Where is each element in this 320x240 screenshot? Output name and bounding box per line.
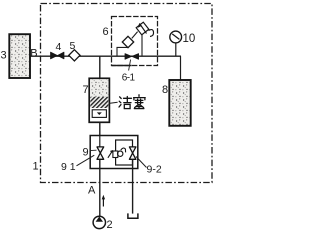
label 活塞 (piston) drawn strokes xyxy=(119,95,145,109)
svg-text:5: 5 xyxy=(70,40,76,52)
piston rod box xyxy=(92,110,106,118)
svg-text:A: A xyxy=(88,185,96,197)
wire L from pipe to filter diamond xyxy=(117,47,128,56)
pilot arrow xyxy=(108,151,113,158)
tank 3 xyxy=(9,34,30,78)
leader 9-1 xyxy=(77,155,95,166)
box 6 (dashed enclosure) xyxy=(112,17,158,66)
enclosure box 1 (chain line border) xyxy=(41,4,213,183)
wire right valve down to drain tank xyxy=(132,159,134,213)
svg-text:9 1: 9 1 xyxy=(61,161,76,173)
svg-text:B: B xyxy=(30,47,37,59)
valve 9-1 (vertical bowtie) xyxy=(97,147,104,159)
cylinder 7 body xyxy=(89,78,109,122)
wire pipe down to tank 8 xyxy=(180,56,182,80)
svg-text:8: 8 xyxy=(162,84,168,96)
wire into left valve xyxy=(99,136,101,148)
pressure gauge 10 xyxy=(170,31,182,43)
relief valve arrow xyxy=(140,24,147,34)
box 6 bottom edge solid segment xyxy=(112,65,132,67)
svg-text:9-2: 9-2 xyxy=(147,164,162,176)
relief valve (tilted square with arrow) xyxy=(136,22,149,35)
svg-text:6-1: 6-1 xyxy=(122,73,136,84)
filter diamond in box 6 xyxy=(122,36,133,47)
main pipe wire B-4-5-6 xyxy=(30,55,181,57)
pump triangle xyxy=(96,217,103,222)
svg-text:4: 4 xyxy=(56,41,62,53)
valve box 9 inner xyxy=(116,140,133,165)
pilot square xyxy=(113,151,118,158)
svg-text:2: 2 xyxy=(107,219,113,231)
svg-text:1: 1 xyxy=(33,161,39,173)
svg-text:9: 9 xyxy=(83,147,89,159)
rod mark xyxy=(97,112,102,115)
wire relief valve to pipe xyxy=(141,35,143,57)
svg-text:6: 6 xyxy=(103,26,109,38)
valve box 9 outer xyxy=(90,136,138,169)
leader 9-2 xyxy=(136,157,147,168)
tank 8 xyxy=(169,80,190,126)
wire gauge stem xyxy=(175,43,177,56)
wire left valve down to pump xyxy=(99,159,101,216)
wire diamond to relief valve 6 xyxy=(132,32,138,39)
pilot ring xyxy=(118,151,123,156)
leader to piston xyxy=(110,102,118,103)
valve 9-2 (vertical bowtie) xyxy=(129,147,136,159)
piston (hatched) xyxy=(90,97,108,108)
spring hook xyxy=(149,30,154,37)
valve 6-1 (bowtie on pipe) xyxy=(125,54,139,60)
drain tank symbol xyxy=(128,213,138,218)
cylinder 7 gas section (stippled) xyxy=(90,79,108,96)
gauge needle xyxy=(172,34,179,40)
flow arrow xyxy=(102,198,104,207)
wire cylinder to valve box xyxy=(99,122,101,135)
pilot hook xyxy=(121,148,126,152)
leader 6-1 xyxy=(129,60,131,71)
wire junction to cylinder 7 xyxy=(99,56,101,78)
svg-text:7: 7 xyxy=(83,84,89,96)
svg-text:3: 3 xyxy=(1,50,7,62)
pump 2 xyxy=(93,216,105,228)
svg-text:10: 10 xyxy=(183,33,196,45)
leader 9 xyxy=(90,149,97,151)
valve 4 (shut-off bowtie) xyxy=(51,52,65,59)
valve 5 (diamond check) xyxy=(69,50,80,61)
